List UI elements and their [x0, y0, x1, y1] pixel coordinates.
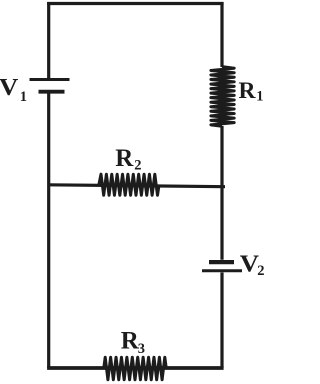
svg-text:2: 2	[257, 263, 264, 279]
svg-text:V: V	[0, 75, 19, 101]
svg-text:3: 3	[138, 341, 145, 357]
svg-text:1: 1	[256, 89, 263, 105]
svg-text:R: R	[239, 78, 257, 104]
svg-text:R: R	[115, 145, 134, 172]
svg-text:1: 1	[20, 89, 27, 105]
svg-text:2: 2	[134, 158, 141, 174]
